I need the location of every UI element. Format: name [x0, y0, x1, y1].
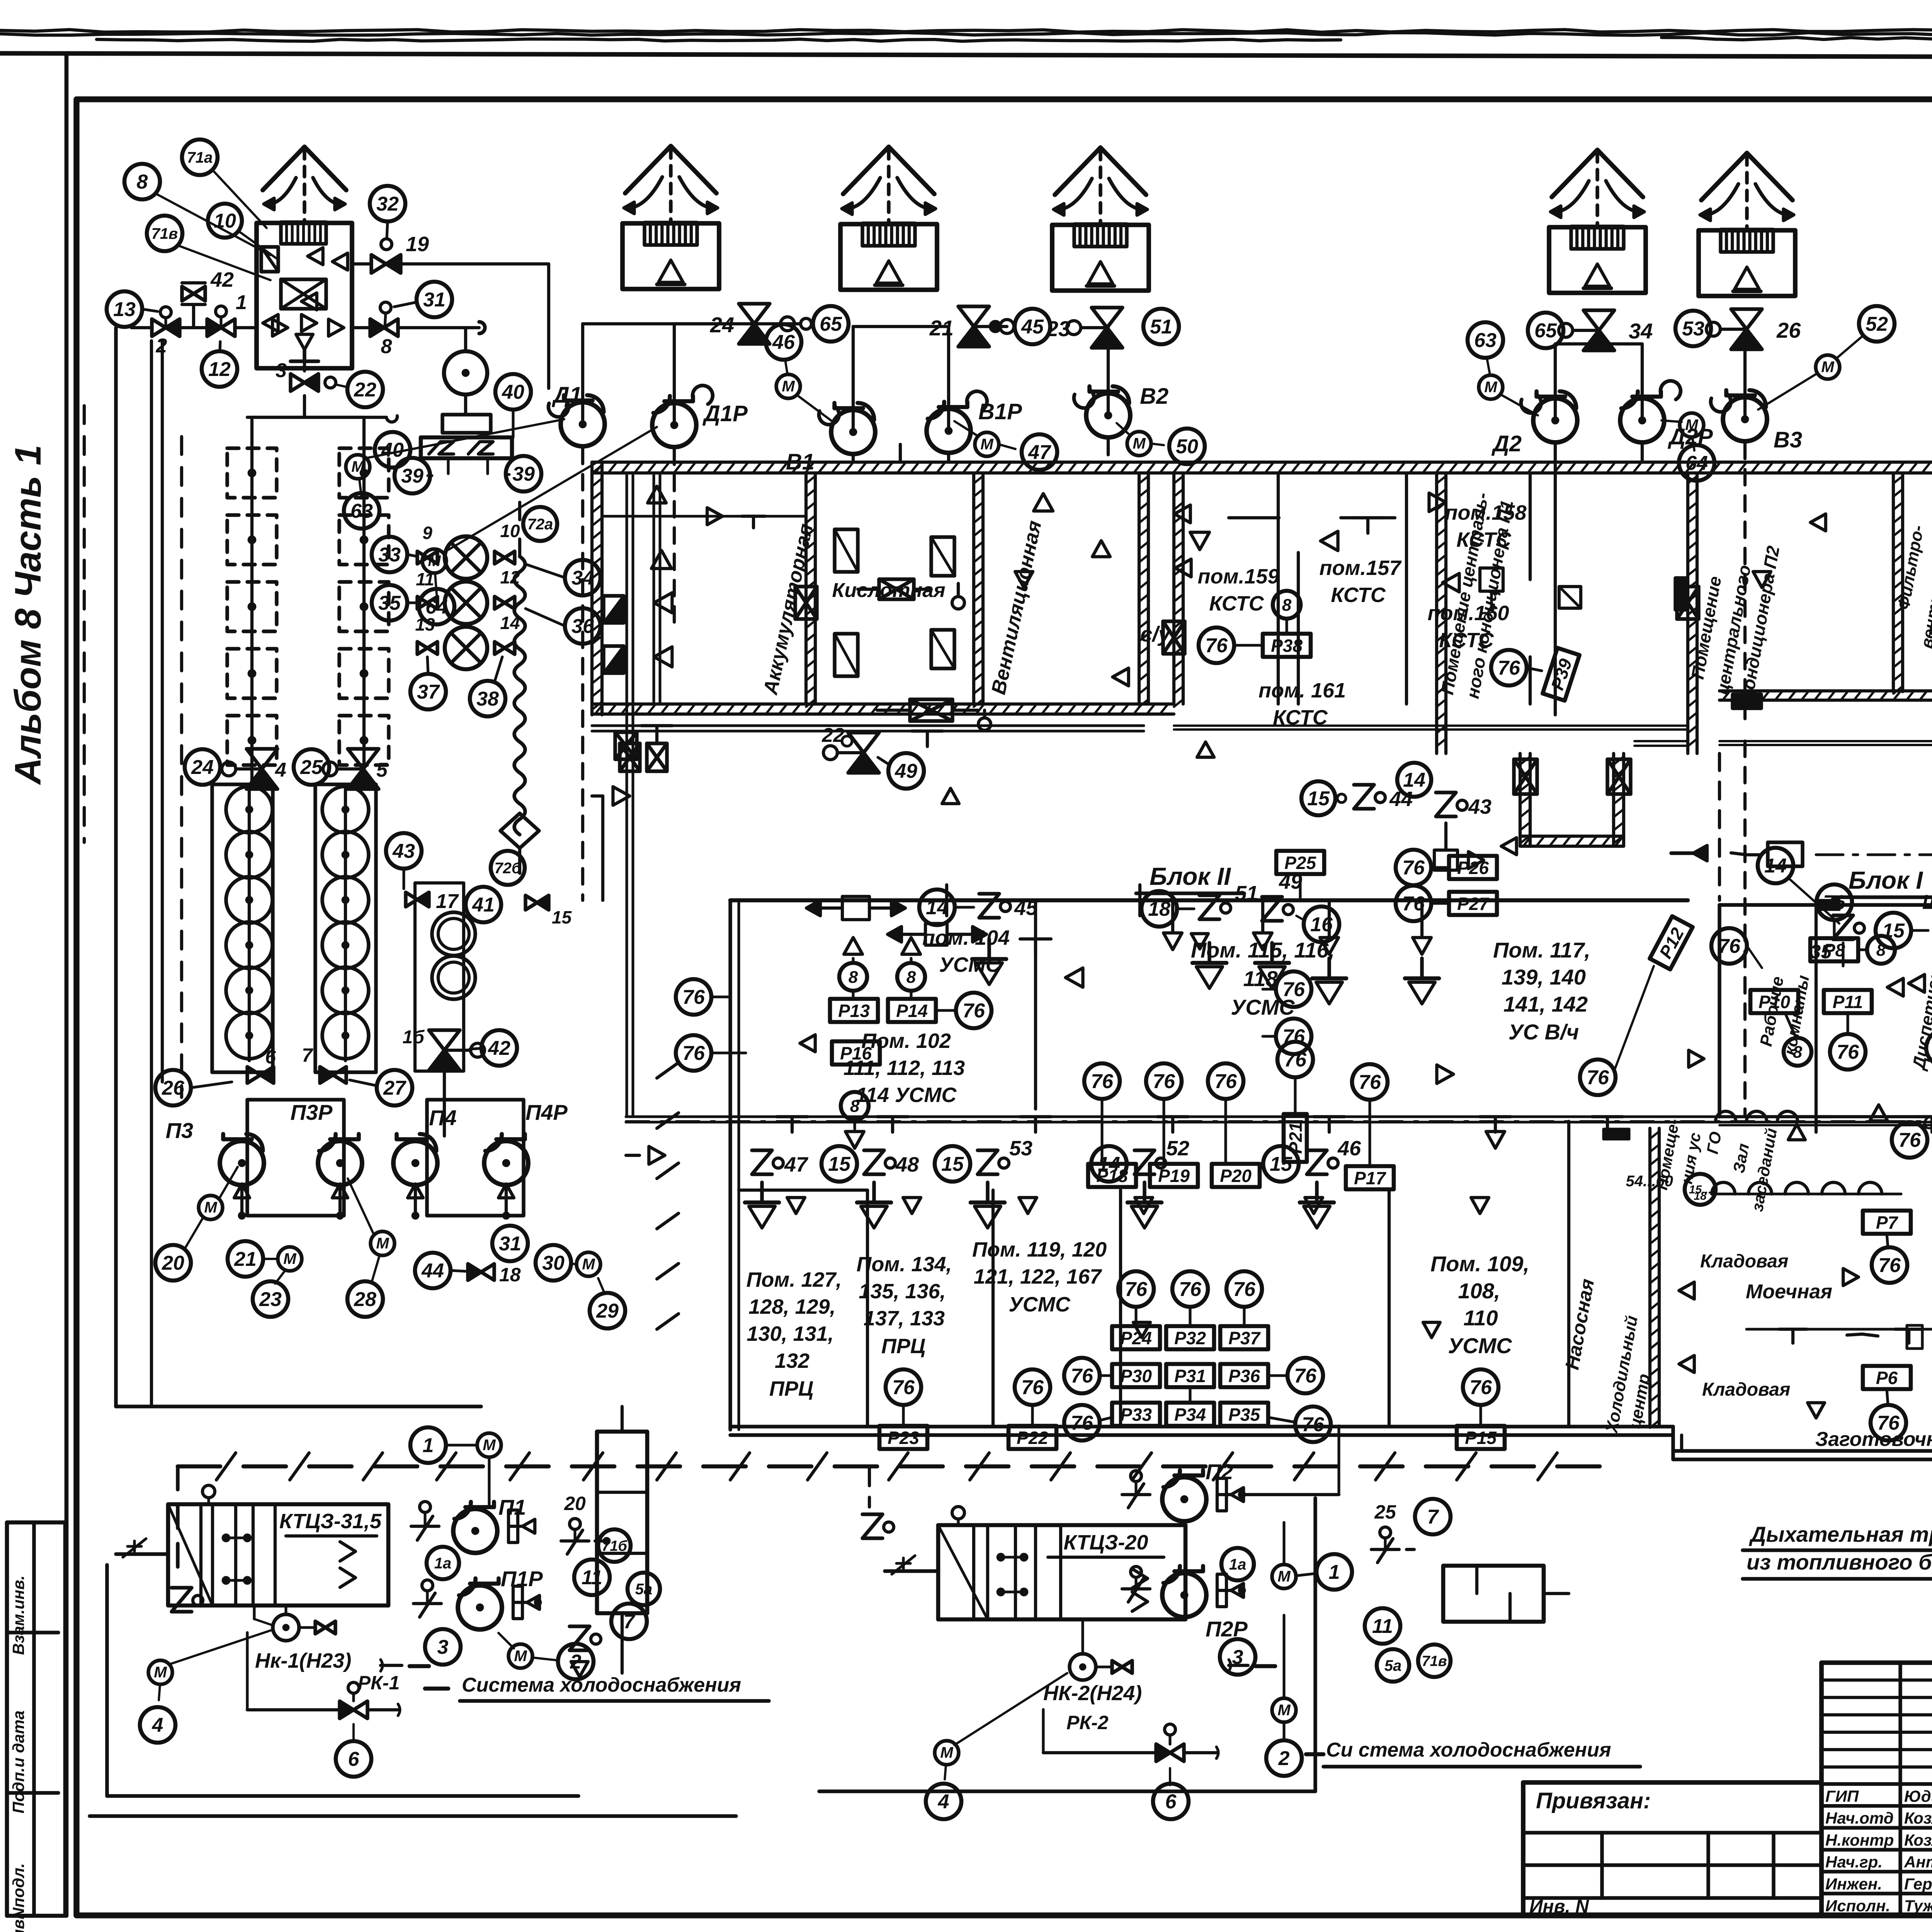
svg-text:76: 76 [1071, 1412, 1094, 1434]
pos 76 пом117 [1352, 1064, 1388, 1100]
battery room dark marks [604, 596, 624, 623]
crossed fan circles [445, 536, 487, 579]
svg-text:Исполн.: Исполн. [1825, 1897, 1890, 1915]
svg-text:Кладовая: Кладовая [1700, 1251, 1788, 1272]
svg-text:М: М [483, 1437, 496, 1454]
svg-text:М: М [1277, 1568, 1291, 1585]
svg-text:7: 7 [302, 1044, 313, 1066]
svg-text:76: 76 [1179, 1278, 1202, 1301]
svg-text:1: 1 [236, 291, 247, 314]
duct fitting mid [1733, 694, 1761, 708]
pos 72б 41 valve 15 [491, 851, 525, 885]
pos 3 П1Р [425, 1629, 461, 1665]
motor М В1Р with pos 47 [975, 432, 999, 456]
svg-text:Моечная: Моечная [1746, 1281, 1832, 1303]
svg-text:Пом. 117,: Пом. 117, [1493, 938, 1590, 962]
corridor scallops upper [1716, 1111, 1736, 1121]
svg-text:УСМС: УСМС [1448, 1333, 1512, 1358]
acc room duct line [603, 515, 806, 517]
pos 63 left [344, 493, 379, 529]
svg-text:Привязан:: Привязан: [1536, 1788, 1651, 1813]
svg-text:пом.159: пом.159 [1197, 565, 1279, 588]
pos76 Р23 [886, 1369, 921, 1405]
valve 1 pos 12 [216, 306, 226, 317]
svg-text:19: 19 [406, 233, 429, 256]
svg-text:Р34: Р34 [1174, 1405, 1206, 1425]
svg-text:Д1: Д1 [551, 383, 582, 408]
svg-text:22: 22 [354, 379, 376, 401]
fan П1 [453, 1509, 497, 1553]
therm row lower: Z48 [864, 1150, 884, 1174]
svg-text:из топливного бака ДЭС: из топливного бака ДЭС [1747, 1550, 1932, 1574]
fan Д2 [1533, 398, 1577, 442]
pos76 Р22 [1015, 1369, 1050, 1405]
svg-text:76: 76 [682, 986, 705, 1009]
svg-text:Блок I: Блок I [1849, 866, 1923, 894]
pos 43 valve17 [386, 833, 422, 869]
svg-text:108,: 108, [1458, 1279, 1500, 1303]
valve 31 pos 8 [417, 282, 452, 317]
svg-text:43: 43 [392, 840, 415, 862]
svg-text:28: 28 [354, 1288, 376, 1311]
svg-text:9: 9 [422, 523, 432, 543]
svg-text:РК-2: РК-2 [1066, 1712, 1109, 1733]
svg-text:Р33: Р33 [1120, 1405, 1152, 1425]
svg-text:М: М [980, 436, 994, 453]
svg-text:76: 76 [1823, 891, 1846, 914]
svg-text:Р26: Р26 [1457, 858, 1489, 878]
svg-text:38: 38 [476, 688, 499, 710]
supply arrows under fans [240, 1188, 243, 1213]
svg-text:Р15: Р15 [1465, 1428, 1497, 1448]
wall damper lower acid [910, 699, 952, 721]
svg-text:ИнвNподл.: ИнвNподл. [9, 1863, 27, 1932]
pos 3 П2Р [1220, 1639, 1255, 1675]
svg-text:20: 20 [162, 1252, 184, 1274]
svg-text:141, 142: 141, 142 [1503, 992, 1588, 1016]
svg-text:132: 132 [775, 1349, 810, 1372]
svg-text:20: 20 [564, 1493, 586, 1514]
svg-text:П2: П2 [1206, 1459, 1233, 1484]
svg-text:Система холодоснабжения: Система холодоснабжения [462, 1674, 741, 1696]
svg-text:ПРЦ: ПРЦ [881, 1335, 925, 1358]
stack В3 [1699, 230, 1795, 296]
sheet top edge squiggle [0, 30, 1932, 32]
svg-text:39: 39 [512, 463, 535, 485]
svg-text:110: 110 [1463, 1306, 1498, 1330]
svg-text:24: 24 [191, 756, 214, 779]
sheet left border line [65, 54, 69, 1916]
pos 76 - Р39 cluster [1491, 650, 1527, 685]
pbox Р37 [1220, 1326, 1268, 1349]
valve 21 with pos 45 [958, 306, 989, 327]
svg-text:КСТС: КСТС [1209, 592, 1264, 615]
svg-text:52: 52 [1866, 313, 1888, 335]
wall Кислотная-Вентиляционная [972, 473, 975, 704]
fan П3 [220, 1141, 264, 1185]
svg-text:2: 2 [156, 335, 167, 357]
svg-text:13: 13 [113, 298, 136, 321]
М pos 2 П2Р down [1272, 1698, 1296, 1722]
valve 5 pos 25 [348, 749, 379, 769]
motor М В2 with pos 50 [1127, 432, 1151, 456]
slash marks lower left block [657, 1063, 679, 1078]
svg-text:Инв. N: Инв. N [1529, 1896, 1589, 1917]
svg-text:В1Р: В1Р [978, 399, 1022, 424]
grounds under block II sensors [987, 939, 991, 959]
pos 76 left margin 1 [676, 979, 711, 1015]
svg-text:ПРЦ: ПРЦ [769, 1377, 813, 1400]
svg-text:УСМС: УСМС [1009, 1293, 1071, 1316]
acid room fittings [835, 529, 858, 572]
svg-text:137, 133: 137, 133 [864, 1307, 945, 1330]
pos 46 with motor [766, 324, 801, 360]
pos 1а [427, 1547, 459, 1579]
vertical tank skid2 [1443, 1566, 1544, 1622]
svg-text:Р36: Р36 [1228, 1366, 1260, 1386]
svg-text:76: 76 [1205, 634, 1228, 657]
fan П3Р [318, 1141, 362, 1185]
svg-text:72а: 72а [527, 516, 553, 533]
svg-text:26: 26 [1776, 318, 1801, 342]
pos 1 М П1 [410, 1427, 446, 1463]
lower partitions [866, 1190, 869, 1427]
svg-text:76: 76 [1359, 1071, 1381, 1094]
pom 102 cluster [839, 963, 867, 991]
pbox Р24 [1112, 1326, 1160, 1349]
svg-text:76: 76 [1718, 935, 1741, 957]
pos 64 left [419, 589, 454, 624]
svg-text:УС В/ч: УС В/ч [1509, 1020, 1579, 1044]
pbox Р31 [1166, 1364, 1214, 1387]
block I dash-dot pipe row [1816, 853, 1932, 856]
svg-text:31: 31 [423, 289, 446, 311]
svg-text:П4: П4 [429, 1105, 456, 1130]
svg-text:139, 140: 139, 140 [1502, 965, 1586, 989]
svg-text:ГИП: ГИП [1825, 1787, 1859, 1805]
pbox Р26 Р27 with 76 [1396, 850, 1431, 885]
svg-text:В3: В3 [1774, 427, 1802, 452]
stack В2 [1052, 225, 1149, 291]
pos 8 under 102 [841, 1092, 869, 1120]
pbox Р33 [1112, 1403, 1160, 1426]
cond valves 9-14 [417, 551, 427, 564]
motor М П3 pos 20 [199, 1196, 223, 1219]
svg-text:118: 118 [1243, 966, 1278, 991]
svg-text:М: М [514, 1648, 527, 1665]
svg-text:26: 26 [162, 1077, 185, 1099]
svg-text:П1: П1 [498, 1495, 526, 1519]
valve 3 pos 22 [303, 361, 306, 371]
svg-text:12: 12 [208, 358, 231, 381]
svg-text:КТЦЗ-31,5: КТЦЗ-31,5 [279, 1510, 382, 1533]
therm row lower: Z53 [978, 1150, 998, 1174]
svg-text:Дыхательная трубка: Дыхательная трубка [1749, 1522, 1932, 1546]
svg-text:5а: 5а [635, 1581, 653, 1598]
svg-text:Пом. 109,: Пом. 109, [1430, 1252, 1529, 1276]
fan П4 [393, 1141, 437, 1185]
block II top line [730, 898, 1688, 903]
vertical tank skid1 [597, 1432, 647, 1613]
svg-text:Р17: Р17 [1354, 1168, 1386, 1188]
svg-text:76: 76 [1091, 1070, 1114, 1093]
sheet top line [0, 53, 1932, 58]
svg-text:63: 63 [1474, 329, 1497, 352]
svg-text:Р20: Р20 [1220, 1166, 1252, 1186]
motor М Д2 with pos 63 [1479, 375, 1503, 399]
svg-text:1: 1 [423, 1434, 434, 1457]
wall насосная [1648, 1128, 1651, 1427]
pbox Р30 [1112, 1364, 1160, 1387]
svg-text:76: 76 [1282, 978, 1305, 1001]
skid2 right pipe [1242, 1493, 1339, 1496]
motor М pos 4 skid1 [148, 1660, 172, 1684]
svg-text:76: 76 [1469, 1376, 1492, 1399]
svg-text:10: 10 [500, 521, 520, 541]
pos circles 8 71a 71b 10 [124, 164, 160, 199]
fan В1 [831, 410, 875, 454]
fan В1Р [927, 409, 971, 453]
svg-text:15: 15 [1307, 787, 1330, 810]
svg-text:31: 31 [499, 1233, 521, 1255]
svg-text:КТЦЗ-20: КТЦЗ-20 [1064, 1531, 1148, 1554]
valve 26 with pos 53 [1731, 309, 1762, 329]
svg-text:128, 129,: 128, 129, [748, 1295, 835, 1318]
svg-text:4: 4 [152, 1714, 163, 1736]
svg-text:КСТС: КСТС [1331, 583, 1386, 607]
svg-text:Взам.инв.: Взам.инв. [9, 1575, 27, 1655]
svg-text:Д1Р: Д1Р [702, 401, 748, 426]
svg-text:72б: 72б [494, 860, 521, 877]
svg-text:П3Р: П3Р [291, 1100, 333, 1124]
pos 76 - Р38 cluster [1199, 628, 1234, 663]
svg-text:П2Р: П2Р [1206, 1617, 1248, 1641]
upper-left rooms bottom wall [592, 702, 1174, 706]
svg-text:Р30: Р30 [1120, 1366, 1152, 1386]
svg-text:Н.контр: Н.контр [1825, 1831, 1894, 1849]
svg-text:Р23: Р23 [888, 1428, 919, 1448]
svg-text:114 УСМС: 114 УСМС [856, 1083, 957, 1107]
svg-text:45: 45 [1021, 316, 1044, 338]
condenser column B [339, 448, 389, 498]
svg-text:М: М [1821, 359, 1835, 376]
pbox Р14 [888, 999, 936, 1022]
svg-text:8: 8 [849, 968, 858, 986]
left column label boxes [7, 1522, 65, 1916]
diamond filter [500, 813, 539, 848]
svg-text:23: 23 [259, 1288, 282, 1311]
extra wall dampers [795, 587, 817, 619]
svg-text:76: 76 [1282, 1026, 1305, 1048]
М pos 2 П1Р [509, 1644, 532, 1668]
svg-text:42: 42 [488, 1037, 510, 1060]
svg-text:Пом. 127,: Пом. 127, [747, 1268, 842, 1291]
svg-text:130, 131,: 130, 131, [747, 1322, 833, 1345]
svg-text:76: 76 [963, 1000, 985, 1022]
stack В1 [840, 224, 937, 290]
pbox Р12 rotated [1580, 1060, 1616, 1095]
svg-text:М: М [1484, 379, 1498, 396]
svg-text:53: 53 [1009, 1137, 1032, 1160]
svg-text:36: 36 [571, 615, 594, 638]
svg-text:46: 46 [1337, 1137, 1361, 1160]
fan П4Р [484, 1141, 528, 1185]
wall П2 conditioner left [1686, 473, 1689, 753]
pos 1а М 1 П2 [1221, 1548, 1254, 1580]
dash boundary skid1 [178, 1464, 769, 1469]
svg-text:71а: 71а [187, 149, 213, 166]
therm Z35 [1833, 915, 1853, 939]
pbox Р6 76 [1863, 1366, 1911, 1389]
svg-text:37: 37 [417, 681, 440, 703]
svg-text:76: 76 [682, 1042, 705, 1065]
pbox Р35 [1220, 1403, 1268, 1426]
svg-text:пом. 161: пом. 161 [1259, 679, 1346, 702]
svg-text:П3: П3 [166, 1118, 193, 1143]
pos 33 35 37 [372, 537, 407, 572]
svg-text:Р7: Р7 [1876, 1213, 1899, 1233]
stack Д2 [1549, 227, 1646, 293]
svg-text:Пом. 119, 120: Пом. 119, 120 [972, 1238, 1107, 1261]
fan В3 [1723, 397, 1767, 441]
svg-text:121, 122, 167: 121, 122, 167 [974, 1265, 1102, 1288]
svg-text:51: 51 [1150, 316, 1172, 338]
svg-text:76: 76 [1233, 1278, 1256, 1301]
svg-text:Тужилкина: Тужилкина [1904, 1897, 1932, 1915]
svg-text:ГО: ГО [1703, 1130, 1725, 1155]
KTZ-31.5 box [168, 1504, 388, 1605]
duct line right wing [1719, 740, 1932, 742]
svg-text:2: 2 [1278, 1747, 1290, 1770]
svg-text:76: 76 [1898, 1129, 1921, 1151]
motor М pos 4 skid2 [935, 1741, 959, 1765]
therm Z 44 with pos 15 [1301, 781, 1335, 815]
svg-text:8: 8 [137, 171, 148, 193]
corridor scallops [1712, 1182, 1735, 1194]
svg-text:П4Р: П4Р [526, 1100, 568, 1124]
svg-text:76: 76 [1402, 857, 1425, 879]
duct ticks left [615, 732, 637, 759]
svg-text:14: 14 [1403, 769, 1425, 791]
svg-text:18: 18 [1694, 1190, 1707, 1202]
pom117 triangles [1320, 937, 1338, 954]
pump НК-1 [273, 1614, 299, 1641]
svg-text:11: 11 [582, 1566, 602, 1589]
pos 44 valve 18 [415, 1253, 451, 1288]
pos76 рабочие with Р10 [1711, 928, 1747, 964]
svg-text:Си стема холодоснабжения: Си стема холодоснабжения [1326, 1739, 1611, 1761]
therm 18 - Z51 49 [1141, 891, 1177, 927]
svg-text:65: 65 [1534, 320, 1557, 342]
svg-text:54...60: 54...60 [1626, 1173, 1673, 1190]
P grid 76 circles [1118, 1271, 1154, 1307]
therm row lower: Z46 pos15 [1263, 1146, 1299, 1182]
svg-text:М: М [782, 378, 795, 395]
pos 21 М 23 [228, 1241, 263, 1277]
fan В2 [1086, 393, 1130, 437]
valve 23 with pos 51 [1092, 308, 1122, 328]
corridor line right [1719, 1115, 1932, 1118]
pos 76 - Р9 [1926, 1030, 1932, 1066]
pbox Р8 cluster [1816, 884, 1852, 920]
svg-text:76: 76 [1878, 1254, 1901, 1277]
svg-text:15: 15 [552, 907, 572, 927]
svg-text:76: 76 [1302, 1413, 1325, 1436]
svg-text:76: 76 [1214, 1070, 1237, 1093]
central duct U [1519, 753, 1522, 846]
valve 16 pos 42 [429, 1030, 460, 1050]
fan Д1 [561, 402, 605, 446]
dash boundary skid2 [769, 1464, 1604, 1469]
evaporator column B [315, 784, 376, 1072]
svg-text:М: М [1133, 435, 1146, 452]
svg-text:Р10: Р10 [1759, 992, 1790, 1012]
svg-text:50: 50 [1176, 435, 1198, 458]
pom 104 damper [925, 923, 947, 945]
therm Z 43 with pos 14 [1397, 763, 1431, 797]
svg-text:М: М [376, 1235, 389, 1252]
М pos 28 [371, 1231, 395, 1255]
svg-text:6: 6 [265, 1046, 276, 1068]
AHU-1 exhaust arrow [303, 149, 306, 220]
therm 14 - Z45 [919, 889, 955, 925]
triangles lower-left block [649, 1146, 665, 1164]
svg-text:52: 52 [1166, 1137, 1189, 1160]
pos 76 right of Р14 [956, 993, 992, 1028]
svg-text:35: 35 [378, 592, 401, 614]
КСТС symbols [1190, 532, 1209, 550]
pos 31 30 М 29 [492, 1226, 528, 1261]
svg-text:76: 76 [1587, 1066, 1609, 1089]
pbox Р13 [830, 999, 878, 1022]
svg-text:76: 76 [1021, 1376, 1044, 1399]
air units block I [1768, 842, 1803, 866]
svg-text:М: М [940, 1744, 954, 1761]
pos 15 block I a [1876, 913, 1911, 948]
skid1 system text [381, 1664, 402, 1667]
svg-text:48: 48 [895, 1153, 919, 1176]
motor М Д2Р with pos 64 [1680, 413, 1704, 437]
wall фильтровент left [1892, 473, 1895, 692]
pos76 row pom115 [1084, 1063, 1120, 1099]
wall пом159 left [1172, 473, 1175, 704]
svg-text:71в: 71в [1422, 1653, 1447, 1669]
svg-text:3: 3 [276, 359, 287, 382]
mid kitchen symbols [1779, 1328, 1807, 1331]
svg-text:Р37: Р37 [1228, 1328, 1261, 1348]
fans П3 П3Р П4 П4Р box [247, 1100, 344, 1216]
svg-text:10: 10 [214, 210, 236, 232]
svg-text:М: М [582, 1256, 595, 1273]
svg-text:18: 18 [499, 1264, 521, 1286]
valve 6 pos 26 [247, 1067, 260, 1083]
pbox Р11 with 76 [1824, 990, 1872, 1013]
svg-text:39: 39 [401, 465, 423, 487]
left section enclosing lines [114, 328, 117, 1406]
svg-text:В2: В2 [1140, 384, 1168, 409]
svg-text:Р32: Р32 [1174, 1328, 1206, 1348]
wall Аккумуляторная-Кислотная [804, 473, 808, 704]
pos 13 valve 2 [107, 291, 142, 327]
КСТС inner partitions [1277, 473, 1280, 704]
svg-text:76: 76 [1125, 1278, 1148, 1301]
valve РК-2 pos 6 [1156, 1744, 1170, 1762]
evaporator column A [212, 784, 273, 1072]
svg-text:М: М [1277, 1702, 1291, 1719]
svg-text:1а: 1а [434, 1555, 452, 1572]
pump НК-2 [1070, 1654, 1096, 1680]
lower block bottom wall [730, 1425, 1673, 1428]
